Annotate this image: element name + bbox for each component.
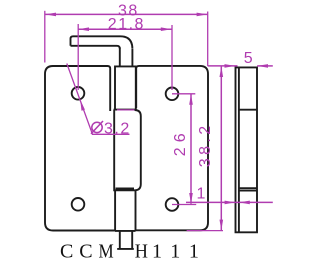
pin L-handle [71,36,133,49]
hole bottom-left [72,198,85,211]
side view joint band 2 [239,188,257,190]
dim 21.8 arrow left [78,27,89,31]
dim 26 line [190,94,192,204]
dim 38 arrow left [45,13,56,17]
dim 5 line left + 38.2 top extension [208,65,238,67]
dim 38 extension left [44,11,46,63]
dim 38 arrow right [197,13,208,17]
right leaf [135,66,208,230]
dim 1 line [186,201,273,203]
dim 38.2 line [220,66,222,230]
svg-text:1: 1 [189,241,199,262]
svg-text:M: M [99,241,114,262]
svg-text:5: 5 [244,50,254,67]
svg-text:26: 26 [172,128,189,156]
leader o3.2 arrow [80,100,85,111]
side view outline [236,67,258,232]
dim 5 arrow left [225,64,236,68]
dim 38 extension right [207,12,209,66]
dim 5 line right [257,65,273,67]
hole bottom-right [166,198,179,211]
dim 1 arrow left [225,201,236,205]
dim 26 extension top [172,93,195,95]
o3.2 diameter symbol [91,121,103,134]
hole top-right [166,88,179,101]
dim 26 arrow bottom [189,193,193,204]
svg-text:21.8: 21.8 [108,16,145,33]
side view inner line [238,67,240,232]
dim 38 line [45,13,207,15]
svg-text:38.2: 38.2 [197,122,214,167]
pin upper shank [120,48,133,67]
dim 21.8 arrow right [161,27,172,31]
pin bottom end [117,231,134,249]
dim 38.2 extension bottom [187,230,223,232]
hole top-left [72,87,85,100]
joint line top [114,109,136,111]
dim 1 arrow right [239,201,250,205]
plate bottom edge across knuckle [115,230,136,232]
svg-text:1: 1 [197,186,207,203]
svg-text:C: C [60,241,73,262]
dim 21.8 line [78,28,171,30]
barrel inner joint line [116,188,135,190]
svg-text:1: 1 [170,241,180,262]
svg-text:C: C [79,241,92,262]
dim 26 arrow top [189,94,193,105]
dim 38.2 arrow top [220,66,224,77]
leader o3.2 line [67,64,130,135]
side view joint band 1 [239,109,257,111]
svg-text:1: 1 [152,241,162,262]
knuckle top segment [115,66,136,109]
joint magenta overlay [117,109,135,111]
svg-text:H: H [135,241,148,262]
knuckle bottom segment [115,190,135,230]
dim 26 extension bottom [172,204,196,206]
dim 5 arrow right [257,64,268,68]
dim 21.8 extension left [77,24,79,90]
dim 38.2 arrow bottom [220,220,224,231]
left leaf [45,66,115,231]
dim 21.8 extension right [171,25,173,90]
svg-text:3.2: 3.2 [104,120,131,137]
knuckle middle barrel [114,110,141,191]
